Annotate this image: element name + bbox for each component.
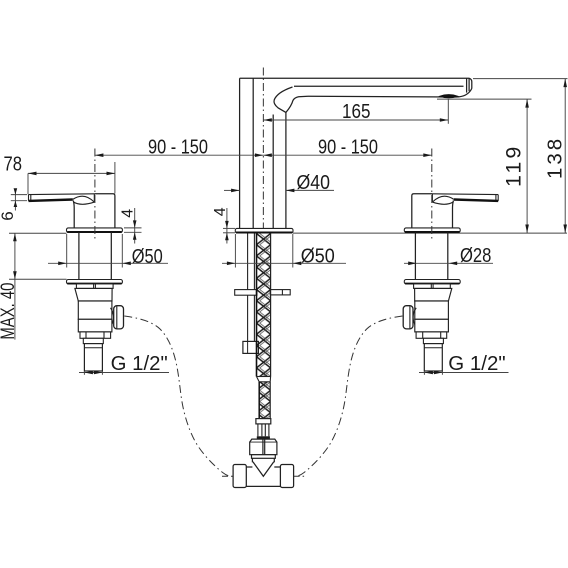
mounting bracket right part xyxy=(270,290,290,295)
dim 78 line xyxy=(28,172,115,174)
svg-text:Ø50: Ø50 xyxy=(301,246,335,268)
valve cartridge section xyxy=(78,301,112,319)
dim 4 left line xyxy=(134,208,136,244)
svg-text:Ø50: Ø50 xyxy=(132,246,163,268)
handle body xyxy=(73,194,115,228)
dim 90-150 right line xyxy=(263,154,431,156)
spout body xyxy=(240,78,472,228)
svg-text:G 1/2": G 1/2" xyxy=(448,353,505,375)
dim 165 line xyxy=(263,119,448,121)
node left handle centerline xyxy=(94,149,96,242)
dim 78 arrows xyxy=(28,172,37,176)
dim Ø40 arrows (outside pointing in) xyxy=(231,189,240,193)
hose joint xyxy=(257,376,271,378)
dim 138 line xyxy=(564,79,566,233)
svg-text:G 1/2": G 1/2" xyxy=(111,353,168,375)
dim 4 center extensions xyxy=(223,227,235,229)
hose routing curve right xyxy=(297,316,403,476)
stud nut xyxy=(243,341,259,353)
dim 4 left arrows (outside pointing in) xyxy=(133,220,137,228)
spout end face lines xyxy=(466,78,468,92)
dim Ø28 line xyxy=(404,262,493,264)
tee left centerline stub xyxy=(222,475,233,477)
valve collar nut xyxy=(80,332,111,338)
lever blade xyxy=(29,194,95,202)
valve cartridge section xyxy=(415,301,449,319)
tee fitting xyxy=(233,458,294,487)
mounting shank xyxy=(78,232,80,279)
hose end tube xyxy=(258,424,269,436)
dim G1/2 right line xyxy=(419,372,509,374)
handle flange xyxy=(67,228,123,233)
dim 6 bottom extension xyxy=(11,200,27,202)
shoulder xyxy=(83,338,103,343)
lever neck xyxy=(73,196,95,204)
mounting bracket left part xyxy=(235,290,291,296)
dim 4 left extensions xyxy=(124,227,142,229)
tee right centerline stub xyxy=(294,475,305,477)
lever neck xyxy=(432,196,454,204)
dim Ø50 left arrows (outside pointing in) xyxy=(58,262,66,266)
dim 4 center line xyxy=(226,208,228,244)
dim MAX.40 arrows (inside pointing out) xyxy=(13,233,17,241)
handle body xyxy=(412,194,454,228)
threaded mounting stud xyxy=(247,234,249,342)
spout column left edge xyxy=(239,78,241,228)
spout arm bottom edge with nose curve xyxy=(308,89,472,98)
dim 165 right extension xyxy=(447,99,449,124)
valve connector tabs xyxy=(76,284,113,289)
gasket xyxy=(257,436,270,439)
outlet neck bulge xyxy=(111,308,114,327)
lever underside heavy edge xyxy=(29,200,73,201)
dim G1/2 left line xyxy=(79,372,169,374)
dim 6 line xyxy=(14,189,16,211)
spout base flange xyxy=(235,228,293,232)
dim 165 arrows xyxy=(263,118,271,122)
bend petal left crease xyxy=(274,87,293,112)
svg-text:78: 78 xyxy=(4,154,23,176)
dim Ø50 center arrows xyxy=(227,262,236,266)
spout column inner right line xyxy=(272,115,274,229)
valve connector tabs xyxy=(414,284,451,289)
dim G1/2 left extensions xyxy=(83,371,85,375)
nut base plate xyxy=(252,455,276,459)
flexible hose upper braid xyxy=(257,234,271,419)
hose routing curve left xyxy=(124,316,230,476)
lower mounting plate xyxy=(67,280,123,284)
outlet disc xyxy=(114,306,124,329)
svg-text:6: 6 xyxy=(0,211,17,220)
dim 4 center arrows xyxy=(225,221,229,229)
lever underside heavy edge xyxy=(454,200,498,201)
svg-text:Ø28: Ø28 xyxy=(460,245,491,267)
spout arm mid highlight line xyxy=(294,85,464,87)
wire: MAX.40 bottom extension xyxy=(9,278,67,280)
handle flange xyxy=(404,228,460,233)
tee right cap xyxy=(280,465,293,488)
dim G1/2 left arrows xyxy=(84,371,93,375)
arrowheads xyxy=(13,79,567,375)
lever blade xyxy=(432,194,498,202)
svg-text:165: 165 xyxy=(342,101,371,123)
tee neck xyxy=(251,458,253,462)
svg-text:MAX. 40: MAX. 40 xyxy=(0,283,19,340)
dim Ø50 center extensions xyxy=(234,234,236,268)
tee left cap xyxy=(233,465,246,488)
dim Ø50 left line xyxy=(48,262,168,264)
tail pipe xyxy=(424,344,442,371)
dim 138 arrows xyxy=(563,79,567,88)
shoulder xyxy=(423,338,443,343)
outlet neck bulge xyxy=(413,308,416,327)
dim 78 left extension xyxy=(27,173,29,194)
outlet disc xyxy=(403,306,413,329)
svg-text:4: 4 xyxy=(212,207,229,216)
dim 78 right extension xyxy=(114,162,116,194)
flexible hose lower braid xyxy=(259,382,270,419)
valve lower section xyxy=(415,319,449,332)
mounting shank xyxy=(447,232,449,279)
dim 138 top extension xyxy=(473,78,568,80)
wire: counter baseline left (MAX.40 top extension) xyxy=(9,232,67,234)
dim 119 top extension xyxy=(437,98,532,100)
svg-text:138: 138 xyxy=(544,136,567,179)
dim Ø50 center line xyxy=(222,262,346,264)
valve lower section xyxy=(78,319,112,332)
dim 90-150 left line xyxy=(95,154,263,156)
bend petal right crease xyxy=(286,96,308,112)
wire: counter baseline right xyxy=(293,232,567,234)
spout column right edge below bend xyxy=(285,112,287,228)
dimension texts xyxy=(0,101,567,375)
svg-text:4: 4 xyxy=(120,209,137,218)
svg-text:90 - 150: 90 - 150 xyxy=(148,137,208,159)
valve upper section xyxy=(75,288,112,301)
dim Ø40 line left segment xyxy=(224,189,240,191)
dim Ø50 left extensions xyxy=(66,234,68,268)
dim 119 arrows xyxy=(525,99,529,108)
spout column inner highlight line xyxy=(252,78,254,228)
dim MAX.40 line with text underline xyxy=(14,233,16,339)
svg-text:Ø40: Ø40 xyxy=(297,172,331,194)
dim 6 top extension xyxy=(11,194,27,196)
hose end collar xyxy=(256,419,271,424)
dim G1/2 right arrows xyxy=(424,371,433,375)
tee funnel xyxy=(253,462,274,477)
tail pipe xyxy=(84,344,102,371)
hex nut xyxy=(250,439,277,455)
aerator xyxy=(440,95,459,98)
dim 90-150 arrows xyxy=(95,153,104,157)
node spout centerline xyxy=(262,68,264,233)
dim 6 arrows (outside pointing in) xyxy=(14,188,18,194)
valve collar nut xyxy=(416,332,447,338)
dim 119 line xyxy=(526,99,528,233)
svg-text:119: 119 xyxy=(502,144,526,187)
node right handle centerline xyxy=(431,149,433,242)
valve upper section xyxy=(415,288,452,301)
lower mounting plate xyxy=(404,280,460,284)
dim Ø28 arrows xyxy=(408,262,417,266)
svg-text:90 - 150: 90 - 150 xyxy=(318,137,378,159)
spout arm top edge xyxy=(240,78,472,88)
tee barrel xyxy=(246,466,252,468)
dim Ø40 line right segment xyxy=(286,189,334,191)
